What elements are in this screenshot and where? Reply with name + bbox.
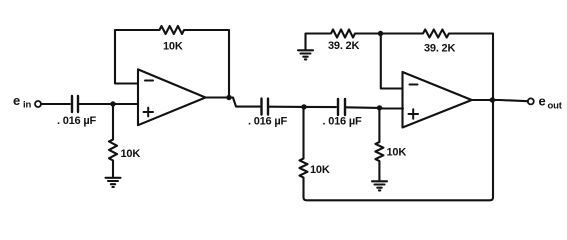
- svg-text:39. 2K: 39. 2K: [424, 43, 455, 55]
- svg-text:10K: 10K: [163, 41, 183, 53]
- svg-text:10K: 10K: [387, 147, 407, 159]
- svg-text:. 016 µF: . 016 µF: [248, 116, 287, 128]
- svg-text:. 016 µF: . 016 µF: [323, 116, 362, 128]
- svg-text:e: e: [13, 93, 20, 108]
- svg-text:e: e: [539, 94, 546, 109]
- svg-text:. 016 µF: . 016 µF: [57, 115, 96, 127]
- svg-text:in: in: [23, 100, 31, 111]
- svg-text:10K: 10K: [310, 164, 330, 176]
- svg-text:out: out: [548, 101, 563, 112]
- svg-text:39. 2K: 39. 2K: [328, 40, 359, 52]
- svg-text:10K: 10K: [121, 148, 141, 160]
